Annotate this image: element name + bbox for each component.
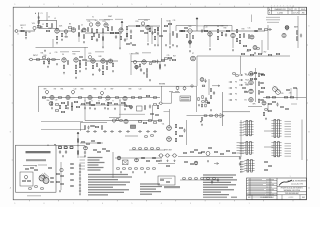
svg-text:INT: INT (54, 89, 57, 91)
svg-text:FS: FS (235, 88, 237, 90)
svg-text:V11: V11 (162, 124, 165, 126)
svg-text:270: 270 (289, 93, 292, 95)
svg-text:C2: C2 (42, 24, 44, 26)
svg-text:R33: R33 (242, 29, 245, 31)
svg-text:.02: .02 (49, 53, 51, 55)
svg-text:INPUT: INPUT (33, 55, 38, 57)
svg-text:R19: R19 (136, 21, 139, 23)
svg-text:V4: V4 (62, 54, 64, 56)
svg-text:100K: 100K (59, 26, 63, 28)
svg-text:R41: R41 (41, 53, 44, 55)
svg-text:C-12340: C-12340 (277, 12, 283, 14)
svg-text:1: 1 (290, 6, 291, 8)
svg-text:C40: C40 (74, 89, 77, 91)
svg-text:1: 1 (249, 4, 250, 6)
svg-text:B: B (269, 12, 270, 14)
svg-text:FS: FS (235, 94, 237, 96)
svg-text:C5: C5 (81, 25, 83, 27)
svg-text:8: 8 (44, 4, 45, 6)
svg-text:C13: C13 (205, 27, 208, 29)
svg-text:.047: .047 (94, 20, 97, 22)
svg-text:R: R (98, 100, 99, 102)
svg-text:REVERB: REVERB (159, 84, 165, 86)
svg-text:R: R (119, 100, 120, 102)
svg-text:R70: R70 (281, 93, 284, 95)
svg-text:C1: C1 (41, 13, 43, 15)
svg-text:FS: FS (235, 100, 237, 102)
svg-text:R62: R62 (264, 51, 267, 53)
svg-text:10045: 10045 (301, 9, 306, 11)
svg-text:FS: FS (235, 82, 237, 84)
svg-text:V9: V9 (245, 82, 247, 84)
svg-text:REV: REV (302, 197, 305, 199)
svg-text:2-1: 2-1 (289, 9, 291, 11)
svg-text:R87: R87 (111, 89, 114, 91)
svg-text:1: 1 (249, 203, 250, 205)
svg-text:1: 1 (274, 6, 275, 8)
svg-text:R40: R40 (44, 55, 47, 57)
svg-text:R57: R57 (173, 55, 176, 57)
svg-text:R85: R85 (94, 89, 97, 91)
svg-text:C48: C48 (55, 100, 58, 102)
svg-text:C25: C25 (167, 55, 170, 57)
svg-text:R: R (112, 100, 113, 102)
svg-text:V7: V7 (192, 53, 194, 55)
svg-text:C11: C11 (173, 20, 176, 22)
svg-text:220K: 220K (48, 28, 52, 30)
svg-text:R89: R89 (129, 89, 132, 91)
svg-text:JRS: JRS (301, 12, 304, 14)
svg-text:8: 8 (44, 203, 45, 205)
svg-text:R60: R60 (247, 51, 250, 53)
svg-text:C3: C3 (48, 17, 50, 19)
svg-text:INPUT: INPUT (20, 25, 26, 27)
svg-text:5: 5 (131, 4, 132, 6)
svg-text:4: 4 (161, 4, 162, 6)
svg-text:0 1 2 3: 0 1 2 3 (289, 197, 294, 199)
svg-text:C20: C20 (55, 52, 58, 54)
svg-text:R48: R48 (99, 56, 102, 58)
svg-text:1: 1 (280, 6, 281, 8)
svg-text:.02: .02 (54, 18, 56, 20)
svg-text:6: 6 (102, 4, 103, 6)
svg-text:2: 2 (219, 203, 220, 205)
svg-text:R8: R8 (69, 24, 71, 26)
svg-text:VOL: VOL (32, 23, 35, 25)
svg-text:R90: R90 (47, 100, 50, 102)
svg-text:9: 9 (14, 4, 15, 6)
svg-text:VOL: VOL (88, 53, 91, 55)
svg-text:T1: T1 (35, 166, 37, 168)
svg-text:.02: .02 (104, 89, 106, 91)
svg-text:5: 5 (131, 203, 132, 205)
svg-text:3: 3 (190, 4, 191, 6)
svg-text:2: 2 (219, 4, 220, 6)
svg-text:R44: R44 (73, 54, 76, 56)
svg-text:SPKR EXT: SPKR EXT (164, 150, 172, 152)
svg-text:9: 9 (14, 203, 15, 205)
svg-text:R30: R30 (224, 28, 227, 30)
svg-text:R81: R81 (61, 89, 64, 91)
svg-text:J1: J1 (17, 34, 19, 36)
svg-text:4: 4 (161, 203, 162, 205)
svg-text:3-17-76: 3-17-76 (293, 12, 299, 14)
svg-text:R1: R1 (21, 28, 23, 30)
svg-text:R13: R13 (103, 21, 106, 23)
svg-text:3: 3 (190, 203, 191, 205)
svg-text:7: 7 (73, 4, 74, 6)
svg-text:R: R (105, 100, 106, 102)
svg-text:6: 6 (102, 203, 103, 205)
svg-text:V11: V11 (244, 100, 247, 102)
svg-text:C15: C15 (248, 28, 251, 30)
svg-text:C44: C44 (139, 89, 142, 91)
svg-text:7: 7 (73, 203, 74, 205)
svg-text:SPK: SPK (252, 104, 255, 106)
svg-text:V2: V2 (92, 17, 94, 19)
svg-text:R83: R83 (81, 89, 84, 91)
svg-text:R: R (84, 100, 85, 102)
svg-text:R2: R2 (28, 32, 30, 34)
svg-text:R24: R24 (167, 21, 170, 23)
svg-text:R11: R11 (88, 21, 91, 23)
svg-text:R: R (91, 100, 92, 102)
